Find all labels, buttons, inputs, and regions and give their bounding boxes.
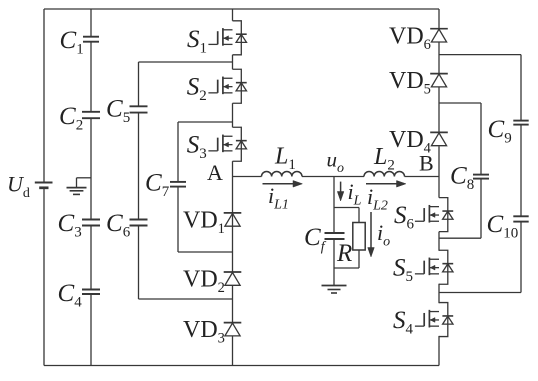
capacitor C9 xyxy=(488,116,529,147)
svg-text:C6: C6 xyxy=(106,210,131,241)
svg-text:VD4: VD4 xyxy=(389,127,432,157)
wire junction J3 (VD1-VD2 node to C7) xyxy=(178,251,233,253)
current arrow iL1 xyxy=(263,181,303,213)
wire C8 column xyxy=(480,103,482,238)
capacitor C3 xyxy=(58,210,101,241)
transistor S6 xyxy=(394,198,453,233)
node B label xyxy=(419,151,434,176)
svg-text:VD5: VD5 xyxy=(389,68,431,98)
node A label xyxy=(207,160,223,185)
svg-text:C9: C9 xyxy=(488,116,512,147)
current arrow iL xyxy=(337,179,361,209)
svg-text:Cf: Cf xyxy=(304,224,327,255)
svg-text:C7: C7 xyxy=(145,170,170,201)
svg-text:C1: C1 xyxy=(60,27,84,58)
wire L1 to node uo xyxy=(302,176,334,178)
svg-text:S6: S6 xyxy=(394,202,415,233)
wire C1-C4 column xyxy=(90,9,92,366)
svg-text:iL2: iL2 xyxy=(367,184,388,214)
svg-text:uo: uo xyxy=(327,148,345,177)
svg-text:C5: C5 xyxy=(106,96,130,127)
diode VD4 xyxy=(389,127,448,157)
wire junction J6 (VD5-VD4 node to C8) xyxy=(439,102,481,104)
wire right leg column xyxy=(438,9,440,366)
svg-text:L1: L1 xyxy=(274,144,296,174)
svg-text:C3: C3 xyxy=(58,210,82,241)
wire junction J2 (S2-S3 node to C7) xyxy=(178,121,233,123)
transistor S4 xyxy=(393,303,453,338)
wire L2 to node B xyxy=(405,176,440,178)
wire left leg column xyxy=(232,9,234,366)
transistor S5 xyxy=(393,250,453,285)
wire node uo down to filter xyxy=(333,177,335,208)
current arrow iL2 xyxy=(366,181,406,214)
wire node A to L1 xyxy=(233,176,262,178)
wire filter top junction xyxy=(334,207,359,209)
ground (load) xyxy=(322,268,347,293)
capacitor Cf xyxy=(304,208,345,269)
svg-text:VD1: VD1 xyxy=(183,208,225,238)
wire C5-C6 column xyxy=(138,62,140,299)
transistor S3 xyxy=(187,127,247,162)
capacitor C7 xyxy=(145,170,186,201)
wire junction J1 (S1-S2 node to C5) xyxy=(139,61,233,63)
wire junction J8 (S5-S4 node to C10) xyxy=(439,292,521,294)
wire C7 column xyxy=(177,122,179,252)
wire left source branch xyxy=(43,9,45,366)
capacitor C6 xyxy=(106,210,148,241)
svg-text:C4: C4 xyxy=(58,280,83,311)
current arrow io xyxy=(368,212,390,257)
svg-text:S1: S1 xyxy=(187,26,207,57)
svg-text:R: R xyxy=(336,240,352,267)
diode VD6 xyxy=(389,23,448,53)
node uo label xyxy=(327,148,345,177)
svg-text:S5: S5 xyxy=(393,255,413,286)
wire top rail xyxy=(44,8,439,10)
voltage source Ud (battery) xyxy=(7,172,53,202)
svg-text:S2: S2 xyxy=(187,74,207,105)
wire junction J7 (S6-S5 node to C8) xyxy=(439,237,481,239)
capacitor C2 xyxy=(59,103,100,134)
capacitor C1 xyxy=(60,27,100,58)
svg-text:iL1: iL1 xyxy=(268,183,289,213)
wire bottom rail xyxy=(44,365,439,367)
wire node uo to L2 xyxy=(334,176,364,178)
capacitor C8 xyxy=(450,162,489,193)
svg-text:C8: C8 xyxy=(450,162,474,193)
transistor S2 xyxy=(187,69,247,104)
diode VD1 xyxy=(183,208,241,238)
svg-text:io: io xyxy=(377,220,390,250)
svg-text:iL: iL xyxy=(348,179,362,209)
svg-text:VD3: VD3 xyxy=(183,317,225,347)
transistor S1 xyxy=(187,21,247,57)
wire C9-C10 column xyxy=(520,55,522,293)
ground (dc midpoint) xyxy=(67,178,92,195)
diode VD3 xyxy=(183,317,241,347)
svg-text:VD2: VD2 xyxy=(183,267,225,297)
capacitor C10 xyxy=(487,211,529,242)
svg-text:C2: C2 xyxy=(59,103,83,134)
svg-text:A: A xyxy=(207,160,223,185)
diode VD2 xyxy=(183,267,241,297)
wire filter bottom junction xyxy=(334,267,359,269)
wire junction J4 (VD2-VD3 node to C6) xyxy=(139,298,233,300)
svg-text:S4: S4 xyxy=(393,307,414,338)
inductor L1 xyxy=(262,144,303,177)
svg-text:Ud: Ud xyxy=(7,172,30,202)
diode VD5 xyxy=(389,68,448,98)
wire junction J5 (VD6-VD5 node to C9) xyxy=(439,54,521,56)
svg-text:S3: S3 xyxy=(187,132,207,163)
capacitor C5 xyxy=(106,96,148,127)
inductor L2 xyxy=(364,144,405,177)
capacitor C4 xyxy=(58,280,101,311)
svg-text:VD6: VD6 xyxy=(389,23,431,53)
resistor R xyxy=(336,208,365,269)
